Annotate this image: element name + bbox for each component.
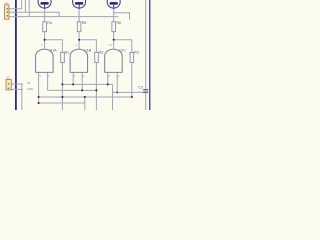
junction rail3 x62.4 — [61, 96, 63, 98]
lamp L3 — [107, 0, 120, 8]
junction rail4 x38.6 — [38, 102, 40, 104]
junction rail2 x82.2 — [81, 89, 83, 91]
svg-text:R2: R2 — [99, 50, 104, 54]
wire rail3-rail4 link — [84, 97, 86, 110]
junction rail2 x98.4 — [95, 89, 97, 91]
gate U1A — [36, 49, 54, 72]
wire capacitor column bottom — [145, 92, 147, 110]
wire U1A left input pin — [38, 72, 40, 103]
wire node A feedback to R1 column — [45, 40, 63, 52]
wire rail1 right drop — [113, 91, 146, 93]
junction wire92 x117.2 — [116, 92, 118, 94]
gate U1A pin numbers — [39, 75, 50, 78]
svg-text:R6: R6 — [117, 21, 122, 25]
svg-text:J1: J1 — [5, 1, 8, 5]
junction rail3 x38.6 — [38, 96, 40, 98]
wire lamp L3 to R6 — [113, 8, 115, 22]
wire J1 pin3 long run — [9, 16, 118, 18]
wire bus entry 3 — [28, 0, 30, 17]
wire J1 pin2 run — [9, 12, 59, 16]
junction rail1 x73.2 — [72, 83, 74, 85]
wire R5 to node B to gate U1B output — [78, 32, 80, 50]
wire U1B right input pin — [81, 72, 83, 90]
wire J1 pin1 stub — [9, 0, 22, 9]
junction rail3 x134.2 — [131, 96, 133, 98]
wire R2 bottom to rail3 — [95, 62, 97, 110]
wire R1 bottom through rail1 to rail3 — [61, 62, 63, 110]
junction rail3 x84.8 — [84, 96, 86, 98]
connector J1 — [5, 1, 10, 19]
svg-text:R3: R3 — [134, 50, 139, 54]
resistor R3 — [130, 52, 134, 62]
gate U1C pin numbers — [109, 75, 120, 78]
svg-text:U1A: U1A — [50, 49, 57, 53]
wire R4 to node A to gate U1A output — [44, 32, 46, 50]
gate U1C — [105, 49, 123, 72]
svg-text:R4: R4 — [47, 21, 52, 25]
wire node C feedback to R3 column — [114, 40, 132, 52]
wire U1C right input pin — [116, 72, 118, 92]
resistor R1 — [61, 52, 65, 62]
lamp L2 — [73, 0, 86, 8]
wire J2 pin2 stub — [11, 88, 22, 90]
gate U1B — [70, 49, 88, 72]
wire rail3 — [39, 96, 132, 98]
resistor R5 — [77, 22, 81, 32]
svg-text:SW0: SW0 — [27, 87, 33, 91]
wire capacitor column top — [145, 0, 147, 89]
resistor R6 — [112, 22, 116, 32]
svg-text:U1B: U1B — [84, 49, 91, 53]
resistor R2 — [95, 52, 99, 62]
wire R6 to node C to gate U1C output — [113, 32, 115, 50]
junction node C — [113, 39, 115, 41]
wire U1B left input pin — [72, 72, 74, 84]
capacitor C3 — [138, 85, 148, 92]
svg-text:R1: R1 — [65, 50, 70, 54]
wire U1C left input pin — [107, 72, 109, 84]
connector J2 — [6, 75, 11, 90]
junction node B — [78, 39, 80, 41]
gate U1B pin numbers — [74, 75, 85, 78]
wire J2 pin1 stub — [11, 83, 23, 85]
junction node A — [44, 39, 46, 41]
junction rail1 x107.8 — [107, 83, 109, 85]
wire J2 pin1 drop — [21, 84, 23, 110]
svg-text:J2: J2 — [7, 75, 10, 79]
wire node B feedback to R2 column — [79, 40, 96, 52]
bus B1 — [15, 0, 17, 110]
wire R3 bottom to rail3 — [131, 62, 133, 97]
sheet border (right) — [149, 0, 151, 110]
wire lamp L2 to R5 — [78, 8, 80, 22]
wire lamp L3 top branch — [114, 13, 130, 20]
lamp L1 — [38, 0, 51, 8]
svg-text:R1: R1 — [27, 81, 31, 85]
svg-text:R5: R5 — [82, 21, 87, 25]
wire rail2 — [48, 89, 97, 91]
wire rail4 — [39, 102, 85, 104]
svg-text:U1C: U1C — [119, 49, 126, 53]
wire rail1 — [62, 83, 112, 85]
wire lamp L1 to R4 — [44, 8, 46, 22]
resistor R4 — [43, 22, 47, 32]
sheet background — [0, 0, 160, 110]
junction rail1 x62.4 — [61, 83, 63, 85]
wire U1A right input pin — [47, 72, 49, 90]
wire bus entry 2 — [24, 0, 26, 12]
svg-text:C3: C3 — [138, 85, 143, 89]
